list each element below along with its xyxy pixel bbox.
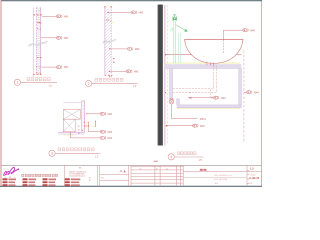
svg-text:E-mail:jwl@design.cn: E-mail:jwl@design.cn	[69, 175, 85, 177]
svg-text:M#2: M#2	[134, 70, 139, 73]
sheet note text	[154, 161, 158, 162]
detail bubble 3	[49, 150, 55, 156]
title text	[178, 152, 180, 155]
wall finish vertical band	[81, 101, 83, 133]
yellow base line	[177, 108, 240, 110]
svg-text:M#1: M#1	[64, 15, 69, 18]
wall finish horizontal band	[58, 131, 85, 133]
sheet border bottom	[0, 185, 262, 187]
svg-text:1:5: 1:5	[250, 167, 254, 171]
wall band hatch	[37, 7, 41, 74]
faucet valve	[173, 15, 177, 21]
red node dots	[107, 12, 114, 77]
basin bowl	[185, 40, 244, 64]
top leader to rim	[223, 30, 242, 40]
title line	[174, 156, 203, 158]
basin rim	[185, 39, 244, 41]
sheet border left	[0, 0, 2, 187]
wall band hatch	[105, 7, 111, 76]
wall band right edge	[110, 7, 112, 76]
red link lines	[95, 121, 97, 126]
svg-text:M#3: M#3	[107, 113, 112, 116]
svg-text:rev: rev	[139, 168, 142, 170]
title text	[58, 148, 61, 151]
faucet riser pipe A	[173, 21, 175, 64]
svg-text:TEL: TEL	[79, 167, 82, 169]
detail bubble 1	[14, 79, 20, 85]
sheet border right	[261, 0, 263, 187]
svg-text:M#3: M#3	[107, 131, 112, 134]
leader 3	[70, 133, 71, 134]
bottom slab left upturn	[177, 99, 180, 105]
right tag	[244, 91, 246, 93]
detail bubble 2	[86, 80, 92, 86]
dimension dashes bottom	[33, 74, 42, 76]
sheet border top	[2, 0, 263, 2]
svg-text:M#2: M#2	[135, 48, 140, 51]
svg-text:M#3: M#3	[107, 137, 112, 140]
svg-text:M#4: M#4	[221, 97, 226, 100]
wall band right edge	[39, 7, 41, 75]
info rows group1	[3, 178, 8, 186]
logo signature	[3, 167, 19, 175]
mid red dash	[106, 19, 109, 21]
svg-text:2024: 2024	[251, 174, 257, 176]
svg-text:B2: B2	[89, 180, 91, 182]
dimension dashes top	[104, 6, 112, 8]
leader 3	[42, 66, 57, 68]
floor drain leader	[172, 104, 198, 119]
bottom dashes	[105, 74, 113, 76]
wall band left edge	[104, 7, 106, 76]
spout arrow	[176, 25, 185, 30]
project cell content	[200, 169, 203, 171]
svg-text:M#4: M#4	[254, 91, 259, 94]
title text	[27, 78, 30, 81]
svg-text:3: 3	[51, 152, 53, 156]
wire: finish face line	[32, 8, 34, 78]
title line	[21, 81, 57, 83]
middle cell content	[100, 174, 129, 176]
faucet riser pipe B	[178, 33, 180, 63]
red node dots	[36, 22, 41, 74]
leader 1	[86, 113, 87, 114]
bottom leader 2	[166, 125, 167, 126]
title line	[92, 82, 137, 84]
svg-text:2103 TEL 8888: 2103 TEL 8888	[214, 179, 228, 181]
blocking box B2	[63, 119, 75, 132]
red mid dashes	[37, 57, 42, 59]
counter slab	[165, 65, 242, 69]
svg-text:by: by	[166, 168, 168, 170]
title text	[95, 78, 98, 81]
right cell content	[247, 170, 249, 184]
floor drain	[170, 99, 173, 100]
drain pipe dashed	[173, 66, 217, 98]
svg-text:M#4: M#4	[200, 125, 205, 128]
detail bubble 4	[168, 154, 174, 160]
svg-text:JWL DESIGN & Co: JWL DESIGN & Co	[214, 175, 233, 177]
red node dots	[78, 121, 96, 134]
info rows group4	[65, 178, 70, 186]
title line	[55, 152, 100, 154]
vertical dividers	[64, 165, 247, 186]
svg-text:M#1: M#1	[64, 66, 69, 69]
leader 3	[110, 70, 126, 72]
leader 2	[41, 37, 56, 39]
wall face magenta line	[164, 5, 166, 146]
svg-text:M#41: M#41	[200, 118, 207, 121]
supply hook pipe	[171, 28, 173, 31]
leader 2	[110, 48, 127, 50]
company name	[22, 174, 24, 176]
right dim dashed line	[243, 50, 245, 143]
mid leader with arrow	[188, 97, 191, 99]
cabinet right panel	[239, 69, 242, 108]
yellow node dots	[86, 124, 94, 127]
yellow dashed furring line	[166, 5, 168, 145]
leader 2	[88, 123, 100, 132]
svg-text:1: 1	[16, 81, 18, 85]
break line	[102, 40, 116, 43]
leader 1	[42, 15, 56, 17]
yellow dashes below band	[63, 134, 73, 136]
svg-text:4: 4	[170, 155, 172, 159]
wall poche bar	[158, 5, 163, 146]
cabinet left panel	[170, 69, 173, 100]
svg-text:A-HB-08: A-HB-08	[249, 176, 260, 180]
node dots on counter	[203, 56, 204, 57]
drain flange ticks	[207, 62, 214, 66]
counter back line	[165, 54, 197, 56]
svg-text:M#4: M#4	[250, 29, 255, 32]
yellow node dots	[107, 6, 114, 23]
dimension dashes top	[33, 14, 42, 16]
svg-text:M#2: M#2	[139, 12, 144, 15]
wall band left edge	[35, 7, 37, 75]
break line	[28, 42, 47, 46]
svg-text:M#1: M#1	[64, 37, 69, 40]
info rows group3	[43, 178, 48, 186]
blocking box B1	[63, 109, 80, 119]
info rows group2	[23, 178, 28, 186]
yellow node dots	[38, 10, 40, 74]
svg-text:2: 2	[88, 82, 90, 86]
yellow counter line	[165, 62, 240, 64]
title block top line	[1, 164, 262, 166]
cabinet bottom slab	[177, 105, 242, 108]
leader 1	[108, 11, 130, 13]
revision table rows	[131, 167, 183, 184]
